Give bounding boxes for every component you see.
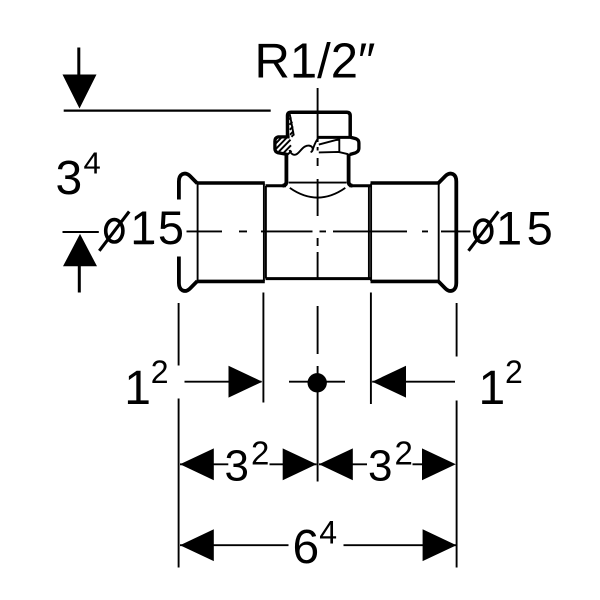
- thread cap outline: [288, 112, 351, 136]
- branch neck left wall: [283, 154, 287, 186]
- cap section hatch: [289, 117, 294, 136]
- cap section inner edge: [290, 114, 294, 135]
- extension line right step: [370, 293, 372, 405]
- row2 right dim line a: [319, 463, 367, 465]
- collar left outline: [275, 137, 290, 155]
- row3 dim line b: [344, 544, 457, 546]
- svg-text:3: 3: [56, 152, 83, 205]
- right socket top outline: [371, 181, 439, 185]
- svg-text:15: 15: [130, 201, 185, 254]
- collar section hatch: [276, 137, 292, 155]
- section break wavy line upper: [290, 146, 313, 155]
- left flare bottom: [179, 257, 197, 291]
- row2 left inner arrowhead: [283, 448, 317, 480]
- central tube bottom: [266, 277, 371, 280]
- row1 center line: [289, 381, 345, 383]
- hex chamfer line: [319, 139, 339, 144]
- vertical centerline: [317, 88, 319, 482]
- row1 right dimension line: [372, 381, 455, 383]
- collar right outline: [349, 137, 359, 155]
- left socket top outline: [197, 181, 265, 185]
- row2 right outer arrowhead: [422, 448, 456, 480]
- central tube top right segment: [349, 184, 370, 187]
- svg-text:4: 4: [84, 145, 101, 180]
- svg-text:15: 15: [496, 201, 557, 254]
- top dimension arrowhead (down): [63, 75, 97, 109]
- hex chamfer fill: [332, 139, 340, 141]
- right flare outline: [438, 174, 456, 291]
- row2 left dim line b: [270, 463, 317, 465]
- label diameter 15 right: [469, 201, 558, 254]
- bottom-left dimension arrowhead (up): [63, 234, 97, 266]
- bore intersection arc: [290, 188, 346, 198]
- svg-text:6: 6: [293, 521, 320, 574]
- svg-text:2: 2: [505, 354, 523, 390]
- svg-text:1: 1: [124, 362, 151, 415]
- svg-text:2: 2: [151, 354, 169, 390]
- extension line left flare lower: [178, 399, 180, 568]
- top dimension line: [64, 109, 271, 111]
- svg-text:4: 4: [319, 515, 337, 551]
- left flare top: [179, 174, 197, 200]
- row3 dim line a: [180, 544, 289, 546]
- label diameter 15 left: [99, 201, 185, 254]
- hex top edge: [318, 136, 350, 139]
- row2 left outer arrowhead: [180, 448, 214, 480]
- right step line inner: [368, 186, 370, 279]
- hex corner edge: [338, 139, 340, 152]
- right step line outer: [370, 184, 372, 282]
- right socket bottom outline: [371, 280, 439, 284]
- bottom-left dimension arrow shaft: [78, 266, 81, 293]
- svg-text:R1/2″: R1/2″: [255, 35, 376, 89]
- row3 left arrowhead: [180, 529, 214, 561]
- row2 right inner arrowhead: [319, 448, 353, 480]
- top dimension arrow shaft (down): [77, 48, 80, 77]
- row1 center dot: [308, 373, 327, 392]
- neck opening edge: [289, 182, 347, 184]
- extension line right flare lower: [456, 401, 458, 568]
- branch neck right wall: [349, 154, 353, 186]
- svg-text:2: 2: [251, 435, 269, 472]
- svg-text:1: 1: [479, 362, 506, 415]
- hex bottom edge: [319, 152, 348, 154]
- left step line outer: [263, 184, 265, 282]
- extension line right flare upper: [456, 303, 458, 357]
- bottom-left dimension stub line: [63, 231, 99, 233]
- row3 right arrowhead: [423, 529, 457, 561]
- row1 right arrowhead: [372, 366, 406, 398]
- row1 left arrowhead: [229, 366, 263, 398]
- left step line inner: [265, 186, 267, 279]
- svg-text:2: 2: [395, 435, 413, 472]
- left socket bottom outline: [197, 280, 265, 284]
- right flare tangent line: [438, 184, 440, 282]
- extension line left step: [262, 293, 264, 403]
- svg-text:3: 3: [368, 442, 392, 491]
- central tube top left segment: [266, 184, 287, 187]
- horizontal centerline: [187, 230, 471, 232]
- extension line left flare upper: [178, 303, 180, 366]
- row2 left dim line a: [180, 463, 228, 465]
- row1 left dimension line: [185, 381, 262, 383]
- section break rising link: [312, 138, 318, 150]
- svg-text:3: 3: [225, 442, 249, 491]
- left flare tangent line: [197, 184, 199, 282]
- row2 right dim line b: [413, 463, 424, 465]
